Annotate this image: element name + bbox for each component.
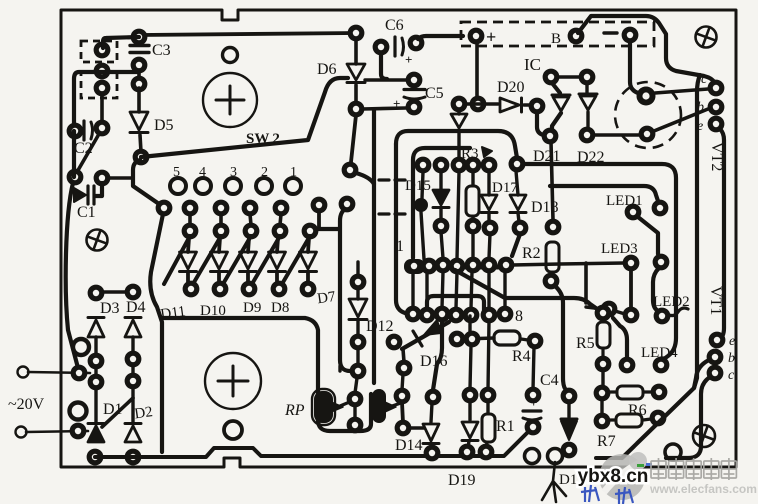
svg-text:www.elecfans.com: www.elecfans.com [649, 482, 757, 496]
watermark url [649, 482, 757, 496]
diode D18 [510, 171, 526, 222]
fan top pad [182, 200, 199, 217]
wire mid vertical x339 [340, 208, 350, 371]
second wiper arrow [385, 402, 401, 412]
pad D14 bottom [424, 445, 441, 462]
capacitor C1 electrolytic [74, 186, 94, 204]
RP wiper arrow [331, 401, 352, 412]
pad solid 421 [414, 198, 428, 212]
fan bottom pad [300, 281, 317, 298]
label D19 [448, 472, 476, 489]
wire C1 pad to junction [107, 176, 133, 180]
pad cluster a [88, 353, 105, 370]
pad D18 bottom [512, 220, 529, 237]
pad row314 [448, 307, 465, 324]
label D9 [243, 300, 261, 316]
wire D22 lead [585, 83, 588, 93]
wire LED3 right down [653, 268, 659, 311]
pad junction 609 [601, 301, 618, 318]
pad c VT2 [708, 80, 725, 97]
svg-text:+: + [393, 96, 400, 111]
pad x350 upper [342, 162, 359, 179]
label D15 [405, 178, 431, 194]
resistor R6 [609, 386, 652, 399]
label LED3 [601, 241, 638, 257]
SW2 shaft circle with crosshair [203, 73, 257, 127]
switch contact ring 3 [225, 178, 241, 194]
label D22 [577, 149, 605, 166]
label D20 [497, 79, 525, 96]
wire x339 bottom [338, 366, 341, 371]
label D4 [126, 299, 146, 316]
wire D20 link [466, 102, 498, 105]
fan top pad [273, 200, 290, 217]
switch contact 4 label [199, 165, 206, 180]
wire fan vertical link [280, 214, 281, 225]
wire D3-D4 top link [96, 290, 132, 294]
wire AC1 lead [28, 372, 90, 373]
pilot ring below lower circle [224, 421, 242, 439]
wire b VT1 diagonal [622, 360, 709, 458]
pad C2 left [67, 123, 84, 140]
pad row314 [434, 306, 451, 323]
wire D20 to D21 bottom [537, 112, 545, 136]
wire RP mid link [355, 378, 357, 393]
wire left long vertical to transformer pad [66, 131, 78, 368]
plus mark C5 [393, 96, 400, 111]
pad VT2 big [637, 87, 656, 106]
svg-text:+: + [486, 27, 496, 47]
wire R4 row [463, 338, 494, 339]
pad C1 left [67, 169, 84, 186]
fan mid pad [302, 223, 319, 240]
dashed battery outline [461, 22, 654, 46]
label D14 [395, 437, 423, 454]
pad D15 bottom [433, 218, 450, 235]
wire col 489 lower [489, 234, 490, 258]
pad row314 [419, 307, 436, 324]
wire AC2 lead [26, 431, 88, 432]
ring bottom b [548, 449, 563, 464]
pad b VT2 [708, 99, 725, 116]
wire D3 column [94, 337, 97, 355]
label C6 [385, 17, 404, 34]
wire D5 to junction pad [140, 135, 141, 152]
wire R1 col top [488, 321, 489, 390]
switch contact 3 label [230, 165, 237, 180]
pad row165 [465, 157, 482, 174]
wire D14 col [431, 403, 432, 422]
diode D20 [500, 98, 522, 112]
pad cluster b [88, 374, 105, 391]
svg-text:ybx8.cn: ybx8.cn [578, 466, 649, 487]
label D7 [316, 289, 337, 307]
pad D20 left b [470, 96, 487, 113]
wire col 459 [457, 172, 459, 259]
pad b VT1 [707, 349, 724, 366]
wire bus diagonal to R5 [455, 270, 600, 311]
fan top pad [242, 200, 259, 217]
wire ladder [425, 272, 428, 308]
wire D21 lead [552, 83, 560, 93]
label c VT1 [728, 368, 735, 383]
wire pad to D14 [409, 426, 424, 429]
label R7 [597, 433, 616, 450]
label LED1 [606, 193, 643, 209]
wire C3 column [137, 70, 141, 84]
pad D20 right [529, 98, 546, 115]
wire corner trace 1 [396, 131, 517, 158]
pad row165 [433, 157, 450, 174]
svg-text:b: b [728, 351, 735, 366]
wire fan vertical link [219, 214, 223, 225]
pad D14 top [425, 389, 442, 406]
pad C3 top [131, 29, 148, 46]
pad R4 right [527, 333, 544, 350]
label b VT2 [697, 100, 704, 115]
label R1 [496, 418, 515, 435]
label D11 [159, 304, 186, 323]
plus mark C4 [530, 395, 537, 410]
ring spare upper [73, 339, 89, 355]
wire fan crossing diagonal [193, 236, 221, 284]
pad D16 left [386, 334, 403, 351]
svg-text:R2: R2 [522, 245, 541, 262]
diode D2 [125, 424, 141, 443]
wire RP right col down [402, 402, 403, 423]
pad cluster d [125, 373, 142, 390]
fan mid pad [182, 223, 199, 240]
svg-text:R3: R3 [461, 146, 479, 162]
lower shaft circle with crosshair [205, 353, 261, 409]
pad x350 lower [339, 196, 356, 213]
dashed module box lower [81, 72, 117, 98]
svg-text:e: e [697, 119, 703, 134]
svg-text:D5: D5 [154, 117, 174, 134]
wire link [131, 364, 134, 376]
resistor R4 [494, 331, 520, 345]
svg-text:VT1: VT1 [707, 286, 724, 315]
svg-text:~20V: ~20V [8, 396, 45, 413]
resistor R1 [482, 401, 495, 447]
pad C5 bottom [406, 99, 423, 116]
wire D12 lower [356, 348, 359, 365]
wire C5 long vertical [372, 110, 376, 383]
pad C6 left [373, 39, 390, 56]
label R4 [512, 348, 531, 365]
label D3 [100, 300, 120, 317]
pad row314 [481, 307, 498, 324]
pad RP top [350, 363, 367, 380]
wire col 473 lower [471, 232, 474, 257]
svg-text:C3: C3 [152, 42, 171, 59]
pad bus [481, 257, 498, 274]
annotation crow foot [542, 462, 566, 502]
capacitor C4 [523, 411, 541, 420]
switch contact 1 label [290, 165, 297, 180]
label D21 [533, 148, 561, 165]
diode unlabeled above R3 [451, 110, 467, 158]
svg-text:RP: RP [284, 402, 305, 419]
label D13 [559, 472, 585, 488]
svg-text:D8: D8 [271, 300, 289, 316]
label C2 [74, 140, 93, 157]
pad R2 top [545, 219, 562, 236]
ring bottom a [525, 449, 540, 464]
label e VT1 [729, 334, 735, 349]
pad D20 left a [451, 96, 468, 113]
wire R4 right [521, 339, 528, 340]
wire D19 tail [468, 441, 469, 448]
pad D1 bottom [87, 449, 104, 466]
wire D19 col [470, 345, 471, 420]
pad D4 top [125, 284, 142, 301]
label R5 [576, 335, 595, 352]
pad C4 bottom [525, 419, 542, 436]
dash mark pair lower [379, 212, 405, 215]
pad left-mid [94, 63, 111, 80]
label ~20V [8, 396, 45, 413]
label 8 [515, 308, 523, 325]
pad RP mid [347, 391, 364, 408]
label C1 [77, 204, 96, 221]
wire D2 column [131, 386, 134, 424]
pad battery minus [622, 27, 639, 44]
wire x350 upper link [356, 173, 374, 184]
wire SW2 lower boundary [162, 318, 371, 431]
svg-text:R4: R4 [512, 348, 531, 365]
wire horizontal y186 to LED1 [550, 186, 658, 201]
wire VT2 pad to c [655, 89, 708, 93]
svg-text:C6: C6 [385, 17, 404, 34]
terminal circle AC1 [18, 367, 29, 378]
wire ladder [411, 272, 414, 308]
pad D21 top [543, 69, 560, 86]
pad bus fat [404, 259, 425, 274]
label D16 [420, 353, 448, 370]
pad stub x319 [311, 197, 328, 214]
svg-text:b: b [697, 100, 704, 115]
wire SW2 region left boundary [133, 160, 162, 206]
pad D2 bottom [125, 449, 142, 466]
pad row314 [463, 307, 480, 324]
label B [551, 31, 561, 47]
resistor R3 [466, 172, 479, 221]
wire D2 to D1 diagonal [102, 398, 133, 427]
pad C3 bottom [131, 57, 148, 74]
label C4 [540, 372, 559, 389]
pad D6 top [348, 25, 365, 42]
diode D5 [130, 112, 148, 133]
switch contact 5 label [173, 165, 180, 180]
pad D13 top [561, 388, 578, 405]
label C5 [425, 85, 444, 102]
label D1 [103, 401, 123, 418]
wire D6 bar to C5 top [365, 78, 407, 81]
pad LED2 right [654, 308, 671, 325]
wire col 423 [422, 172, 423, 198]
pad C4 top [525, 387, 542, 404]
svg-text:B: B [551, 31, 561, 47]
diode D6 [347, 64, 365, 83]
wire D21-D22 top link [557, 75, 581, 79]
ring bottom right [665, 444, 681, 460]
wire c VT1 bottom route [666, 377, 710, 458]
wire top trace C3 to D6 [140, 33, 356, 35]
svg-text:R6: R6 [628, 402, 647, 419]
wire C1 hook [96, 183, 102, 196]
wire D6 pad to C5 bottom [362, 108, 406, 109]
pad AC1 entry [71, 365, 88, 382]
LED2 squiggle [667, 308, 688, 316]
svg-text:+: + [530, 395, 537, 410]
watermark CJK text outline [651, 458, 736, 480]
pad left of D14 [395, 420, 412, 437]
wire D22 to VT2 region [594, 133, 640, 136]
svg-text:D12: D12 [366, 318, 394, 335]
svg-text:D3: D3 [100, 300, 120, 317]
label R6 [628, 402, 647, 419]
pad RP bottom [347, 417, 364, 434]
label 1 mid [396, 238, 404, 255]
pad e VT2 [708, 116, 725, 133]
pad D5 junction [133, 149, 150, 166]
pad row314 [497, 306, 514, 323]
svg-text:D7: D7 [316, 289, 337, 307]
diode D1 filled [88, 424, 104, 443]
switch contact ring 4 [195, 178, 211, 194]
wire pad to C2 [100, 93, 104, 123]
svg-text:1: 1 [396, 238, 404, 255]
fan bottom pad [241, 281, 258, 298]
svg-text:8: 8 [515, 308, 523, 325]
pad D22 top [579, 69, 596, 86]
wire battery B to VT2 c [578, 16, 714, 82]
label LED2 [653, 294, 690, 310]
pad c VT1 [707, 365, 724, 382]
capacitor C5 [404, 90, 425, 100]
dash mark pair upper [379, 178, 405, 181]
label D2 [133, 404, 153, 422]
ring spare lower [70, 403, 87, 420]
svg-text:D9: D9 [243, 300, 261, 316]
diode D8 [269, 238, 286, 284]
diode D11 [180, 238, 197, 284]
pad R7 left [594, 413, 611, 430]
pad bus [435, 257, 452, 274]
wire D6 bottom [354, 85, 358, 104]
pad VT2 lower [639, 126, 656, 143]
label C3 [152, 42, 171, 59]
wire C4 col [533, 347, 534, 390]
wire e VT2 right side vertical [719, 129, 724, 339]
svg-text:IC: IC [524, 55, 541, 74]
pad C1 right [94, 170, 111, 187]
wire D1 column [94, 387, 97, 424]
wire horizontal y72 [74, 72, 139, 128]
pad R5 bottom [595, 356, 612, 373]
fan mid pad [272, 223, 289, 240]
pad R4 left [449, 331, 466, 348]
wire battery plus down [475, 43, 479, 97]
wire LED1 to LED3 [638, 217, 658, 254]
svg-text:SW 2: SW 2 [246, 131, 280, 147]
label D12 [366, 318, 394, 335]
wire R2 to D13 column [555, 286, 567, 391]
wire stub x319 [317, 212, 321, 229]
capacitor C6 [395, 37, 404, 56]
pad battery plus [468, 28, 485, 45]
pad C5 top [406, 72, 423, 89]
label D6 [317, 61, 337, 78]
resistor R5 [597, 319, 610, 357]
svg-text:R5: R5 [576, 335, 595, 352]
pad D17 bottom [482, 220, 499, 237]
fan top pad [213, 200, 230, 217]
capacitor C3 [130, 46, 149, 53]
diode D21 [552, 95, 570, 111]
svg-text:D15: D15 [405, 178, 431, 194]
pad battery B [568, 28, 585, 45]
label R2 [522, 245, 541, 262]
fan bottom pad [183, 281, 200, 298]
minus mark battery [604, 31, 617, 34]
fan bottom pad [212, 281, 229, 298]
wire vertical x586 [584, 263, 588, 303]
wire C6 right to battery+ [418, 36, 463, 39]
wire ladder [503, 272, 506, 308]
wire bus bar [408, 265, 506, 270]
diode D9 [240, 238, 257, 284]
wire col442 to D14 [433, 320, 442, 390]
wire b to circle [654, 109, 708, 131]
potentiometer second body [372, 389, 386, 423]
pad bus [449, 258, 466, 275]
wire col 441 lower [441, 232, 443, 258]
pad C2 right [94, 120, 111, 137]
label RP [284, 402, 305, 419]
wire D21 lead2 [552, 113, 561, 130]
wire left boundary bow to bus [150, 214, 163, 452]
wire C6 left down [381, 53, 387, 79]
diode D17 [481, 172, 497, 222]
mounting hole left [85, 228, 108, 251]
wire fan vertical link [188, 214, 192, 225]
pad mid339 [464, 331, 481, 348]
fan top pad [156, 200, 173, 217]
pad R5 top [595, 305, 612, 322]
wire D16 diagonal [402, 322, 449, 349]
diode D7 [300, 238, 317, 284]
wire fan crossing diagonal [252, 236, 280, 284]
pilot ring above SW2 circle [223, 48, 238, 63]
svg-text:+: + [405, 52, 412, 67]
label b VT1 [728, 351, 735, 366]
pad R1 top [480, 387, 497, 404]
watermark color dashes [637, 463, 652, 467]
pad C6 right [408, 35, 425, 52]
wire battery minus down [630, 42, 638, 93]
pad R3 bottom [465, 218, 482, 235]
wire D20 out [524, 103, 531, 106]
wire fan vertical link [250, 214, 251, 225]
wire 609 link [586, 307, 625, 314]
wire D19 col top [468, 316, 471, 333]
wire rounded loop [427, 296, 484, 310]
wire D12 stub up [356, 262, 359, 275]
pad D12 mid [350, 334, 367, 351]
switch contact ring 1 [285, 178, 301, 194]
